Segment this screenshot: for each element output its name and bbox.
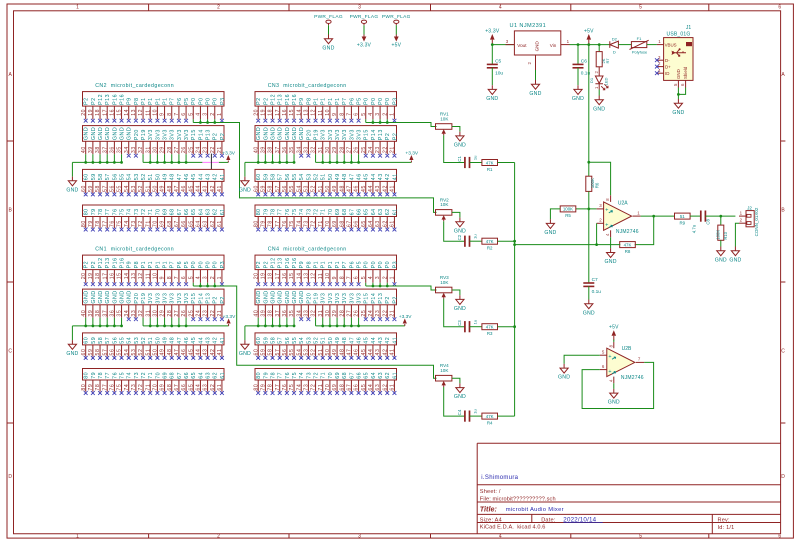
- CN1 row 2 (pins 40-21): [81, 289, 226, 321]
- svg-text:68: 68: [167, 220, 173, 227]
- svg-text:42: 42: [385, 337, 391, 344]
- svg-text:72: 72: [141, 208, 147, 215]
- svg-text:12: 12: [138, 272, 144, 279]
- svg-text:44: 44: [196, 185, 202, 192]
- svg-text:P9: P9: [299, 97, 305, 104]
- svg-text:1u: 1u: [473, 320, 478, 324]
- svg-text:10K: 10K: [440, 368, 449, 373]
- svg-text:64: 64: [368, 220, 374, 227]
- wire pin3 node: [576, 208, 597, 210]
- svg-text:41: 41: [392, 173, 398, 180]
- svg-text:66: 66: [181, 384, 187, 391]
- svg-text:+3.3V: +3.3V: [222, 150, 235, 156]
- svg-text:P0: P0: [213, 261, 219, 268]
- svg-text:GND: GND: [544, 230, 556, 236]
- svg-text:P2: P2: [220, 133, 226, 140]
- svg-text:47: 47: [177, 337, 183, 344]
- svg-text:P8: P8: [134, 97, 140, 104]
- svg-text:28: 28: [167, 146, 173, 153]
- wire CN3 GND bus: [245, 154, 294, 176]
- svg-text:55: 55: [292, 337, 298, 344]
- svg-text:D-: D-: [665, 58, 670, 63]
- svg-text:8: 8: [608, 344, 613, 347]
- svg-text:63: 63: [375, 384, 381, 391]
- junction: [513, 325, 516, 328]
- junction: [587, 43, 590, 46]
- potentiometer RV1 10K: [436, 112, 452, 136]
- svg-text:9: 9: [160, 276, 166, 280]
- svg-text:59: 59: [88, 185, 94, 192]
- svg-text:43: 43: [203, 185, 209, 192]
- svg-text:3V3: 3V3: [155, 129, 161, 140]
- svg-text:34: 34: [296, 310, 302, 317]
- svg-text:13: 13: [303, 272, 309, 279]
- svg-text:48: 48: [339, 185, 345, 192]
- svg-text:1: 1: [76, 534, 79, 540]
- svg-text:50: 50: [155, 173, 161, 180]
- svg-text:71: 71: [318, 220, 324, 227]
- svg-text:15: 15: [117, 272, 123, 279]
- svg-text:27: 27: [174, 146, 180, 153]
- svg-text:P15: P15: [191, 129, 197, 140]
- svg-text:30: 30: [325, 310, 331, 317]
- svg-text:44: 44: [368, 185, 374, 192]
- svg-text:D: D: [781, 474, 785, 480]
- svg-text:70: 70: [153, 220, 159, 227]
- svg-text:P19: P19: [313, 129, 319, 140]
- svg-text:GND: GND: [285, 127, 291, 140]
- no-connect: [655, 71, 659, 75]
- svg-text:18: 18: [95, 272, 101, 279]
- svg-text:77: 77: [278, 372, 284, 379]
- power symbol +5V (below PWR_FLAG, arrow down): [391, 35, 401, 49]
- svg-text:47: 47: [174, 349, 180, 356]
- wire CN2 GND bus: [72, 154, 121, 176]
- svg-text:GND: GND: [558, 375, 570, 381]
- svg-text:GND: GND: [98, 290, 104, 303]
- svg-text:45: 45: [361, 349, 367, 356]
- svg-text:73: 73: [134, 208, 140, 215]
- resistor R5 100K (bias lower): [560, 206, 576, 218]
- svg-text:3V3: 3V3: [335, 129, 341, 140]
- svg-text:51: 51: [145, 349, 151, 356]
- svg-text:27: 27: [347, 146, 353, 153]
- svg-text:43: 43: [378, 173, 384, 180]
- svg-text:P16: P16: [285, 257, 291, 268]
- svg-text:62: 62: [210, 384, 216, 391]
- ground under C5: [486, 85, 498, 102]
- svg-text:65: 65: [361, 220, 367, 227]
- svg-text:P19: P19: [141, 293, 147, 304]
- svg-text:D: D: [613, 49, 616, 54]
- svg-text:57: 57: [105, 173, 111, 180]
- svg-text:6: 6: [778, 534, 781, 540]
- wire C5 top: [491, 45, 493, 65]
- junction: [491, 43, 494, 46]
- svg-text:100K: 100K: [563, 207, 573, 212]
- svg-text:GND: GND: [84, 290, 90, 303]
- wire resistor to summing line: [498, 162, 515, 164]
- svg-text:44: 44: [196, 349, 202, 356]
- wire summing collector vertical: [514, 163, 516, 417]
- svg-text:1u: 1u: [473, 409, 478, 413]
- wire D2 to F1: [618, 44, 631, 46]
- svg-text:P1: P1: [162, 97, 168, 104]
- svg-text:P14: P14: [198, 293, 204, 304]
- J1 pin 6 Shield: [680, 80, 685, 87]
- svg-text:52: 52: [313, 173, 319, 180]
- svg-text:P2: P2: [392, 296, 398, 303]
- svg-text:51: 51: [321, 337, 327, 344]
- svg-text:25: 25: [188, 310, 194, 317]
- svg-text:GND: GND: [454, 394, 466, 400]
- svg-text:3V3: 3V3: [328, 293, 334, 304]
- svg-text:P12: P12: [270, 94, 276, 105]
- CN3 row 1 (pins 20-1): [253, 92, 398, 123]
- svg-text:80: 80: [256, 372, 262, 379]
- svg-text:5: 5: [361, 112, 367, 116]
- svg-text:15: 15: [289, 109, 295, 116]
- svg-text:U1 NJM2391: U1 NJM2391: [510, 23, 547, 29]
- svg-text:61: 61: [217, 384, 223, 391]
- J1 pin 1 VBUS: [657, 39, 664, 45]
- svg-text:45: 45: [188, 349, 194, 356]
- svg-text:14: 14: [124, 109, 130, 116]
- svg-text:3V3: 3V3: [335, 293, 341, 304]
- svg-text:49: 49: [162, 173, 168, 180]
- LED D1 pin 2: [594, 67, 599, 76]
- svg-text:5: 5: [602, 349, 605, 354]
- svg-text:65: 65: [364, 208, 370, 215]
- wire bias resistor to pin3 node: [588, 191, 590, 209]
- svg-text:8: 8: [339, 276, 345, 280]
- svg-text:Date:: Date:: [541, 517, 556, 523]
- wire R5 to GND: [550, 209, 560, 219]
- wire V+ from bias line: [589, 162, 611, 195]
- svg-text:3V3: 3V3: [342, 129, 348, 140]
- svg-text:75: 75: [119, 372, 125, 379]
- svg-text:GND: GND: [119, 290, 125, 303]
- svg-text:P0: P0: [371, 97, 377, 104]
- svg-text:10: 10: [325, 109, 331, 116]
- svg-text:78: 78: [98, 372, 104, 379]
- svg-text:P0: P0: [364, 261, 370, 268]
- svg-text:Title:: Title:: [480, 504, 498, 513]
- svg-text:57: 57: [102, 185, 108, 192]
- svg-text:51: 51: [148, 337, 154, 344]
- svg-text:59: 59: [88, 349, 94, 356]
- svg-text:37: 37: [275, 146, 281, 153]
- power symbol +3.3V right of CN2: [222, 150, 235, 162]
- svg-text:72: 72: [311, 220, 317, 227]
- svg-text:GND: GND: [454, 228, 466, 234]
- svg-text:9: 9: [332, 112, 338, 116]
- svg-text:59: 59: [263, 337, 269, 344]
- ground under U1: [529, 80, 541, 97]
- svg-text:51: 51: [148, 173, 154, 180]
- svg-text:69: 69: [160, 220, 166, 227]
- svg-text:63: 63: [203, 384, 209, 391]
- svg-text:26: 26: [181, 310, 187, 317]
- svg-text:53: 53: [134, 337, 140, 344]
- svg-text:P5: P5: [184, 97, 190, 104]
- svg-text:P2: P2: [91, 261, 97, 268]
- svg-text:63: 63: [205, 372, 211, 379]
- svg-text:GND: GND: [454, 143, 466, 149]
- svg-text:3V3: 3V3: [177, 129, 183, 140]
- junctions on P0 bus: [372, 285, 389, 288]
- svg-text:34: 34: [296, 146, 302, 153]
- svg-text:79: 79: [91, 372, 97, 379]
- svg-text:P12: P12: [98, 257, 104, 268]
- svg-text:69: 69: [162, 208, 168, 215]
- svg-text:71: 71: [321, 372, 327, 379]
- svg-text:56: 56: [285, 173, 291, 180]
- svg-text:56: 56: [282, 185, 288, 192]
- svg-text:P14: P14: [198, 129, 204, 140]
- junction: [587, 161, 590, 164]
- svg-text:30: 30: [153, 310, 159, 317]
- capacitor C3 1u: [457, 320, 478, 333]
- svg-text:P7: P7: [342, 97, 348, 104]
- svg-text:P13: P13: [105, 94, 111, 105]
- wire bias node down to C7: [588, 209, 590, 283]
- svg-text:52: 52: [141, 337, 147, 344]
- svg-text:3V3: 3V3: [170, 293, 176, 304]
- svg-text:36: 36: [282, 146, 288, 153]
- svg-text:42: 42: [213, 337, 219, 344]
- svg-text:74: 74: [127, 372, 133, 379]
- CN1 row 3 (pins 60-41): [81, 333, 226, 360]
- svg-text:65: 65: [188, 384, 194, 391]
- wire C6 top: [577, 45, 579, 65]
- svg-text:68: 68: [342, 208, 348, 215]
- svg-text:60: 60: [81, 185, 87, 192]
- ground at U2B pin5: [558, 364, 570, 381]
- svg-text:6: 6: [354, 276, 360, 280]
- svg-text:62: 62: [213, 372, 219, 379]
- svg-text:65: 65: [191, 208, 197, 215]
- svg-text:66: 66: [354, 384, 360, 391]
- svg-text:PWR_FLAG: PWR_FLAG: [350, 14, 379, 20]
- svg-text:76: 76: [285, 372, 291, 379]
- svg-text:79: 79: [260, 220, 266, 227]
- svg-text:30: 30: [325, 146, 331, 153]
- svg-text:32: 32: [311, 146, 317, 153]
- svg-text:P16: P16: [292, 94, 298, 105]
- svg-text:P1: P1: [155, 261, 161, 268]
- svg-text:75: 75: [117, 384, 123, 391]
- wire CN1 3V3 bus: [143, 318, 229, 326]
- svg-text:63: 63: [375, 220, 381, 227]
- svg-text:74: 74: [124, 220, 130, 227]
- svg-text:77: 77: [278, 208, 284, 215]
- svg-text:77: 77: [102, 220, 108, 227]
- svg-text:GND: GND: [605, 259, 617, 265]
- op-amp U2A NJM2746: [604, 202, 632, 230]
- svg-text:64: 64: [368, 384, 374, 391]
- svg-text:47: 47: [347, 349, 353, 356]
- svg-text:44: 44: [371, 173, 377, 180]
- wire junction down to R10: [720, 216, 722, 225]
- svg-text:58: 58: [98, 337, 104, 344]
- J1 pin 2 D+: [657, 61, 664, 66]
- svg-text:P7: P7: [170, 97, 176, 104]
- svg-text:GND: GND: [239, 351, 251, 357]
- svg-text:28: 28: [339, 146, 345, 153]
- svg-text:58: 58: [270, 173, 276, 180]
- svg-text:66: 66: [184, 372, 190, 379]
- svg-text:P15: P15: [364, 129, 370, 140]
- svg-text:P12: P12: [270, 257, 276, 268]
- svg-text:46: 46: [184, 337, 190, 344]
- svg-text:7: 7: [174, 276, 180, 280]
- svg-text:P1: P1: [148, 261, 154, 268]
- svg-text:GND: GND: [91, 290, 97, 303]
- svg-text:D2: D2: [612, 36, 618, 41]
- svg-text:36: 36: [282, 310, 288, 317]
- svg-text:75: 75: [292, 372, 298, 379]
- svg-text:P0: P0: [198, 97, 204, 104]
- junctions on 3V3 bus: [321, 161, 360, 164]
- CN1 row 4 (pins 80-61): [81, 369, 226, 395]
- svg-text:3V3: 3V3: [321, 129, 327, 140]
- svg-text:27: 27: [174, 310, 180, 317]
- svg-text:GND: GND: [454, 306, 466, 312]
- CN3 row 4 (pins 80-61): [253, 205, 398, 231]
- connector CN2 microbit_cardedgeconn: [95, 83, 174, 89]
- J2 pin 1: [739, 211, 746, 217]
- svg-text:55: 55: [289, 185, 295, 192]
- svg-text:18: 18: [95, 109, 101, 116]
- CN4 row 3 (pins 60-41): [253, 333, 398, 360]
- wire cap to resistor: [470, 415, 482, 417]
- svg-text:46: 46: [356, 337, 362, 344]
- svg-text:P2: P2: [256, 97, 262, 104]
- svg-text:47K: 47K: [486, 414, 494, 419]
- svg-text:65: 65: [191, 372, 197, 379]
- svg-text:34: 34: [124, 146, 130, 153]
- connector CN3 microbit_cardedgeconn: [268, 83, 347, 89]
- svg-text:56: 56: [112, 173, 118, 180]
- svg-text:67: 67: [349, 208, 355, 215]
- svg-text:44: 44: [198, 337, 204, 344]
- svg-text:P6: P6: [349, 261, 355, 268]
- svg-text:GND: GND: [299, 127, 305, 140]
- svg-text:77: 77: [105, 372, 111, 379]
- junctions on GND bus: [84, 325, 123, 328]
- svg-text:R9: R9: [679, 220, 685, 225]
- svg-text:23: 23: [375, 310, 381, 317]
- svg-text:78: 78: [95, 384, 101, 391]
- svg-text:68: 68: [342, 372, 348, 379]
- svg-text:GND: GND: [66, 187, 78, 193]
- svg-text:2: 2: [740, 218, 743, 223]
- svg-text:29: 29: [160, 310, 166, 317]
- svg-text:35: 35: [117, 146, 123, 153]
- power symbol +3.3V right of CN1: [223, 314, 236, 326]
- svg-text:18: 18: [268, 272, 274, 279]
- svg-text:P0: P0: [385, 97, 391, 104]
- svg-text:71: 71: [321, 208, 327, 215]
- svg-text:P2: P2: [84, 97, 90, 104]
- svg-text:53: 53: [134, 173, 140, 180]
- wire CN2 P0 pins to bus: [193, 119, 436, 212]
- svg-text:45: 45: [361, 185, 367, 192]
- svg-text:73: 73: [306, 208, 312, 215]
- potentiometer RV3 10K: [436, 275, 452, 299]
- J1 pin 4 ID: [657, 68, 664, 73]
- wire +3.3V to U1 Vout and C5: [491, 43, 493, 44]
- svg-text:59: 59: [263, 173, 269, 180]
- svg-text:70: 70: [328, 208, 334, 215]
- svg-text:4: 4: [499, 5, 502, 11]
- svg-text:3V3: 3V3: [184, 293, 190, 304]
- svg-text:29: 29: [332, 310, 338, 317]
- svg-text:41: 41: [392, 337, 398, 344]
- wire CN1 P0 pins to bus: [193, 283, 436, 378]
- svg-text:+3.3V: +3.3V: [405, 150, 418, 156]
- svg-text:GND: GND: [608, 400, 620, 406]
- svg-text:P16: P16: [285, 94, 291, 105]
- potentiometer RV2 10K: [436, 197, 452, 221]
- svg-text:60: 60: [84, 173, 90, 180]
- diode D2: [610, 36, 619, 54]
- svg-text:2: 2: [210, 112, 216, 116]
- svg-text:+5V: +5V: [391, 43, 401, 49]
- svg-text:P1: P1: [335, 261, 341, 268]
- U2B pin 8 V+: [608, 342, 613, 348]
- svg-text:49: 49: [332, 185, 338, 192]
- svg-text:78: 78: [270, 208, 276, 215]
- svg-text:2: 2: [210, 276, 216, 280]
- svg-text:54: 54: [299, 173, 305, 180]
- svg-text:4: 4: [196, 112, 202, 116]
- svg-text:56: 56: [112, 337, 118, 344]
- svg-text:10: 10: [153, 272, 159, 279]
- svg-text:microbit Audio Mixer: microbit Audio Mixer: [506, 507, 564, 513]
- svg-text:47: 47: [174, 185, 180, 192]
- svg-text:50: 50: [328, 173, 334, 180]
- svg-text:GND: GND: [263, 127, 269, 140]
- svg-text:GND: GND: [263, 290, 269, 303]
- svg-text:P16: P16: [119, 257, 125, 268]
- svg-text:49: 49: [332, 349, 338, 356]
- svg-text:8: 8: [339, 112, 345, 116]
- svg-text:57: 57: [105, 337, 111, 344]
- wire cap to resistor: [470, 240, 482, 242]
- svg-text:60: 60: [81, 349, 87, 356]
- ground under C7: [583, 300, 595, 317]
- svg-text:GND: GND: [105, 290, 111, 303]
- svg-text:64: 64: [371, 208, 377, 215]
- svg-text:P6: P6: [177, 97, 183, 104]
- wire to GND: [677, 94, 679, 99]
- svg-text:75: 75: [292, 208, 298, 215]
- svg-text:C5: C5: [495, 58, 501, 64]
- svg-text:1u: 1u: [473, 156, 478, 160]
- svg-text:51: 51: [680, 214, 685, 219]
- svg-text:45: 45: [191, 337, 197, 344]
- wire R7 top: [598, 45, 600, 52]
- svg-text:P0: P0: [205, 97, 211, 104]
- svg-text:67: 67: [174, 384, 180, 391]
- svg-text:31: 31: [145, 310, 151, 317]
- power symbol +3.3V (below PWR_FLAG, arrow down): [357, 35, 372, 49]
- ground symbol left of CN4: [239, 340, 251, 357]
- wire pot to GND: [452, 127, 460, 132]
- svg-text:P15: P15: [191, 293, 197, 304]
